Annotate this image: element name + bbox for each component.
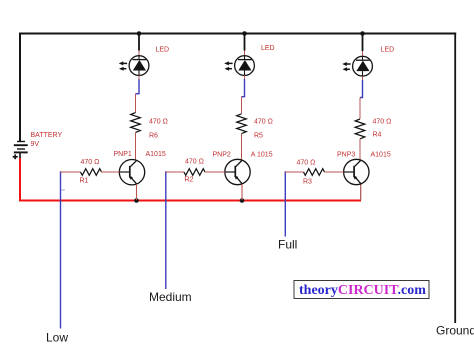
- junction node emitter Q1 on positive rail: [134, 198, 139, 203]
- label 470 ohm (R2): [185, 158, 204, 165]
- svg-text:PNP1: PNP1: [114, 151, 132, 158]
- label Ground: [436, 323, 474, 337]
- label 470 ohm (R6): [149, 119, 168, 126]
- svg-text:A1015: A1015: [146, 151, 166, 158]
- svg-text:470 Ω: 470 Ω: [185, 158, 204, 165]
- resistor R5 470 ohm: [237, 114, 247, 134]
- wire Medium corner to R2: [165, 171, 184, 173]
- wire top rail to LED2: [244, 34, 246, 57]
- svg-text:PNP3: PNP3: [337, 151, 355, 158]
- label LED (D3): [381, 47, 395, 54]
- wire right ground lead: [454, 33, 456, 324]
- label R6: [149, 132, 158, 139]
- junction node LED3 branch on top rail: [360, 31, 365, 36]
- svg-text:470 Ω: 470 Ω: [373, 118, 392, 125]
- label 470 ohm (R4): [373, 118, 392, 125]
- wire top rail to LED1: [138, 34, 140, 57]
- label 470 ohm (R3): [297, 160, 316, 167]
- svg-text:R2: R2: [185, 177, 194, 184]
- wire top negative rail: [19, 33, 456, 35]
- svg-text:A 1015: A 1015: [251, 152, 273, 159]
- label PNP2: [213, 151, 231, 158]
- wire R1 to Q1 base: [101, 171, 130, 173]
- label PNP3: [337, 151, 355, 158]
- label R2: [185, 177, 194, 184]
- transistor Q1 PNP1 A1015: [119, 160, 144, 185]
- wire R6 to Q1 collector: [135, 132, 137, 160]
- stub tick on Low wire: [61, 189, 65, 191]
- LED D1: [119, 56, 149, 76]
- svg-text:LED: LED: [156, 46, 170, 53]
- wire LED1 to R6 with jog: [136, 75, 140, 112]
- label LED (D2): [261, 45, 275, 52]
- label BATTERY 9V: [31, 132, 63, 148]
- wire R2 to Q2 base: [205, 171, 235, 173]
- resistor R2 470 ohm: [184, 169, 205, 176]
- wire R4 to Q3 collector: [359, 139, 361, 161]
- svg-text:R4: R4: [373, 132, 382, 139]
- wire Low probe (blue): [60, 171, 62, 328]
- label R3: [303, 179, 312, 186]
- transistor Q3 PNP3 A1015: [344, 159, 369, 184]
- svg-text:BATTERY: BATTERY: [31, 132, 63, 139]
- label A 1015 (Q2): [251, 152, 273, 159]
- wire LED3 to R4 with jog: [360, 76, 363, 119]
- svg-text:470 Ω: 470 Ω: [149, 119, 168, 126]
- theoryCIRCUIT.com logo box: [294, 281, 429, 299]
- LED D3: [342, 56, 372, 76]
- wire Q3 emitter to rail: [360, 184, 362, 200]
- wire Full probe (blue): [284, 171, 286, 236]
- label R4: [373, 132, 382, 139]
- wire R5 to Q2 collector: [241, 134, 243, 161]
- label 470 ohm (R5): [254, 119, 273, 126]
- svg-text:Medium: Medium: [149, 290, 192, 304]
- label Medium: [149, 290, 192, 304]
- svg-text:PNP2: PNP2: [213, 151, 231, 158]
- resistor R4 470 ohm: [355, 119, 365, 139]
- wire left battery lead: [19, 34, 21, 142]
- wire top rail to LED3: [362, 34, 364, 57]
- svg-text:470 Ω: 470 Ω: [297, 160, 316, 167]
- label LED (D1): [156, 46, 170, 53]
- label R1: [80, 177, 89, 184]
- label A1015 (Q3): [371, 152, 391, 159]
- svg-text:R6: R6: [149, 132, 158, 139]
- label A1015 (Q1): [146, 151, 166, 158]
- wire R3 to Q3 base: [325, 171, 354, 173]
- junction node emitter Q2 on positive rail: [240, 198, 245, 203]
- label R5: [254, 132, 263, 139]
- wire Q2 emitter to rail: [241, 184, 243, 200]
- resistor R1 470 ohm: [81, 169, 102, 176]
- wire Medium probe (blue): [165, 171, 167, 289]
- battery BT1 9V: [13, 142, 28, 160]
- transistor Q2 PNP2 A1015: [225, 159, 250, 184]
- svg-text:LED: LED: [381, 47, 395, 54]
- wire Full corner to R3: [285, 171, 304, 173]
- svg-text:R5: R5: [254, 132, 263, 139]
- svg-text:R1: R1: [80, 177, 89, 184]
- label Low: [46, 330, 68, 344]
- wire Q1 emitter to rail: [136, 184, 138, 200]
- resistor R3 470 ohm: [304, 169, 325, 176]
- wire positive red rail: [20, 158, 361, 201]
- svg-text:Full: Full: [278, 238, 297, 252]
- wire LED2 to R5 with jog: [242, 75, 245, 113]
- svg-text:470 Ω: 470 Ω: [81, 159, 100, 166]
- junction node LED1 branch on top rail: [137, 31, 142, 36]
- svg-text:470 Ω: 470 Ω: [254, 119, 273, 126]
- svg-text:LED: LED: [261, 45, 275, 52]
- svg-text:Ground: Ground: [436, 323, 474, 337]
- junction node LED2 branch on top rail: [242, 31, 247, 36]
- label 470 ohm (R1): [81, 159, 100, 166]
- label Full: [278, 238, 297, 252]
- svg-text:theoryCIRCUIT.com: theoryCIRCUIT.com: [299, 283, 426, 298]
- svg-text:A1015: A1015: [371, 152, 391, 159]
- svg-text:Low: Low: [46, 330, 68, 344]
- wire Low corner to R1: [60, 171, 81, 173]
- svg-text:9V: 9V: [31, 141, 40, 148]
- label PNP1: [114, 151, 132, 158]
- svg-text:R3: R3: [303, 179, 312, 186]
- resistor R6 470 ohm: [131, 113, 141, 133]
- LED D2: [224, 56, 254, 76]
